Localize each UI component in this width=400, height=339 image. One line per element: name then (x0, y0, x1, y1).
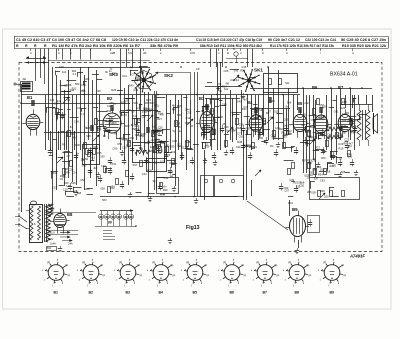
capacitor C41 (98, 178, 102, 180)
resistor R33 (342, 191, 345, 197)
svg-text:k: k (271, 282, 273, 285)
wire (55, 67, 150, 69)
svg-text:C55: C55 (106, 128, 111, 132)
svg-text:S21: S21 (285, 82, 290, 85)
svg-text:C21: C21 (344, 125, 349, 129)
tube base diagram B9 (324, 265, 340, 281)
tube base diagram B1 (48, 265, 64, 281)
svg-text:C21: C21 (236, 145, 241, 149)
svg-text:a: a (57, 259, 59, 262)
ground (205, 158, 207, 161)
svg-text:S15: S15 (133, 101, 138, 105)
svg-text:C44: C44 (204, 105, 209, 109)
resistor R32 (330, 191, 333, 197)
svg-text:1n: 1n (76, 151, 79, 155)
capacitor C37 (258, 132, 262, 134)
wire (97, 126, 106, 128)
svg-text:120: 120 (332, 164, 337, 168)
capacitor C20 (294, 150, 298, 152)
svg-text:f: f (157, 284, 158, 287)
svg-text:R9: R9 (207, 113, 211, 117)
svg-text:B10: B10 (47, 248, 52, 250)
resistor R2 (68, 131, 71, 137)
capacitor C6 (130, 148, 134, 150)
svg-text:C16: C16 (283, 118, 288, 122)
svg-text:f: f (87, 284, 88, 287)
svg-text:S28: S28 (311, 190, 316, 194)
svg-text:25: 25 (103, 134, 106, 138)
aerial connection arrows (26, 58, 46, 60)
svg-text:SK1: SK1 (254, 68, 263, 73)
svg-text:C18: C18 (157, 151, 162, 155)
svg-text:6k8: 6k8 (300, 180, 305, 184)
ground (122, 150, 124, 153)
svg-text:f: f (320, 279, 321, 282)
capacitor C34 (350, 162, 354, 164)
trimmer arrow 2 (93, 135, 99, 141)
svg-text:3n9: 3n9 (234, 69, 239, 73)
electrolytic capacitor C85 (131, 211, 133, 216)
svg-text:f: f (228, 284, 229, 287)
svg-text:R25: R25 (270, 99, 275, 103)
svg-text:C63: C63 (222, 103, 227, 107)
svg-text:BX634 A-01: BX634 A-01 (330, 72, 358, 78)
tube base diagram B2 (83, 265, 99, 281)
svg-text:R30: R30 (75, 143, 80, 147)
svg-text:s: s (251, 269, 253, 272)
wire (56, 49, 58, 60)
svg-text:C52: C52 (117, 142, 122, 146)
wire (250, 108, 290, 110)
svg-text:C67: C67 (284, 189, 289, 193)
svg-text:2n2: 2n2 (283, 123, 288, 127)
svg-text:120: 120 (141, 115, 146, 119)
svg-text:C60: C60 (113, 147, 118, 151)
svg-text:B5: B5 (193, 290, 198, 294)
coil L8 (212, 129, 216, 131)
svg-text:R: R (34, 44, 37, 48)
tube B2 (103, 113, 121, 133)
svg-text:S36: S36 (71, 181, 76, 185)
wire (100, 196, 238, 198)
svg-text:B8: B8 (67, 212, 73, 217)
svg-text:R14 27k R15 120k R16 39k R17 4: R14 27k R15 120k R16 39k R17 4k7 R18 15k (270, 44, 335, 48)
ground (170, 238, 172, 241)
svg-text:100: 100 (124, 99, 129, 103)
svg-text:22k: 22k (85, 77, 90, 81)
resistor R41 (104, 167, 107, 173)
svg-text:l: l (320, 51, 321, 55)
svg-text:B1: B1 (54, 290, 59, 294)
svg-text:B3: B3 (199, 96, 205, 101)
resistor R18 (283, 143, 286, 149)
svg-text:f: f (183, 279, 184, 282)
svg-text:S28: S28 (341, 170, 346, 174)
svg-text:4: 4 (352, 51, 354, 55)
ground (215, 160, 217, 163)
svg-text:A2B: A2B (110, 51, 115, 55)
svg-text:25: 25 (303, 112, 306, 116)
svg-text:4: 4 (30, 51, 32, 55)
svg-text:C28: C28 (67, 83, 72, 87)
svg-text:s: s (114, 269, 116, 272)
svg-text:33k R8 470k R9: 33k R8 470k R9 (150, 44, 178, 48)
capacitor C38 (320, 132, 324, 134)
svg-text:100: 100 (74, 190, 79, 194)
svg-text:g1: g1 (243, 274, 246, 277)
svg-text:B5: B5 (297, 101, 303, 106)
svg-text:R19: R19 (135, 124, 140, 128)
tube base diagram B8 (289, 265, 305, 281)
resistor R10 (186, 141, 189, 147)
svg-text:330: 330 (308, 161, 313, 165)
svg-text:B7: B7 (338, 85, 344, 90)
svg-text:R8: R8 (160, 113, 164, 117)
svg-text:R12: R12 (107, 109, 112, 113)
trimmer box A (201, 176, 214, 197)
svg-text:C41: C41 (334, 109, 339, 113)
svg-text:68: 68 (114, 132, 117, 136)
capacitor C28 (241, 145, 245, 147)
wire (103, 230, 112, 232)
tube B7 (338, 114, 352, 131)
svg-text:330: 330 (100, 155, 105, 159)
resistor R7 (152, 131, 155, 137)
coil L6 (319, 107, 323, 109)
svg-text:C63: C63 (347, 155, 352, 159)
svg-text:C14: C14 (133, 88, 138, 92)
svg-text:Fig13: Fig13 (186, 225, 200, 231)
tube B6 (314, 115, 328, 133)
svg-text:f: f (285, 279, 286, 282)
svg-text:a: a (333, 259, 335, 262)
svg-text:C33: C33 (81, 83, 86, 87)
filter box 2 (157, 178, 179, 194)
resistor R28 (172, 159, 175, 165)
svg-text:B4: B4 (159, 290, 164, 294)
svg-text:R1 1M R2 47k R3 2k2 R4 10k R5: R1 1M R2 47k R3 2k2 R4 10k R5 220k R6 1k… (52, 44, 140, 48)
svg-text:R4: R4 (130, 65, 134, 69)
tube B4 (249, 115, 263, 131)
svg-text:B2: B2 (107, 96, 113, 101)
svg-text:f: f (261, 284, 262, 287)
svg-text:B1: B1 (27, 95, 33, 100)
svg-text:R19: R19 (205, 145, 210, 149)
svg-text:80: 80 (108, 221, 112, 225)
svg-text:C: C (58, 51, 60, 55)
svg-text:C1 45 C2 810 C3 4T C4 100 C5 4: C1 45 C2 810 C3 4T C4 100 C5 47 C6 2n2 C… (16, 38, 106, 42)
ground (278, 142, 280, 145)
svg-text:R14: R14 (348, 118, 353, 122)
svg-text:C81/U: C81/U (48, 232, 55, 235)
svg-text:C52: C52 (80, 178, 85, 182)
ground (318, 162, 320, 165)
electrolytic capacitor C80 (101, 211, 103, 216)
svg-text:90 C20 4n7 C21 12: 90 C20 4n7 C21 12 (268, 38, 300, 42)
svg-text:R23: R23 (243, 144, 248, 148)
ground (60, 246, 62, 249)
svg-text:f: f (124, 284, 125, 287)
svg-text:B9: B9 (292, 207, 298, 212)
resistor R20 (313, 109, 316, 115)
capacitor C15 (241, 128, 245, 130)
wire (35, 67, 37, 81)
svg-text:C55: C55 (312, 168, 317, 172)
resistor R44 (108, 187, 111, 193)
svg-text:k: k (134, 282, 136, 285)
capacitor C19 (284, 128, 288, 130)
svg-text:C9: C9 (301, 123, 305, 127)
svg-text:2x4A: 2x4A (50, 242, 56, 246)
svg-text:R4: R4 (270, 144, 274, 148)
svg-text:R19: R19 (240, 69, 245, 73)
trimmer arrow 9 (233, 75, 239, 81)
capacitor C14 (230, 150, 234, 152)
resistor R25 (342, 99, 345, 105)
capacitor C4 (88, 150, 92, 152)
coil L9 (268, 97, 272, 99)
wire (205, 98, 240, 100)
svg-text:22k: 22k (231, 129, 236, 133)
svg-text:o: o (218, 51, 220, 55)
svg-text:S15: S15 (274, 109, 279, 113)
svg-text:R25: R25 (177, 104, 182, 108)
svg-text:R38: R38 (237, 140, 242, 144)
svg-text:C60: C60 (239, 134, 244, 138)
svg-text:C14 25 C15 3n9 C16 220 C17 47p: C14 25 C15 3n9 C16 220 C17 47p C18 5p C1… (196, 38, 262, 42)
svg-text:g1: g1 (308, 274, 311, 277)
svg-text:560: 560 (75, 82, 80, 86)
svg-text:R4: R4 (111, 185, 115, 189)
svg-text:4: 4 (240, 51, 242, 55)
capacitor C11 (190, 160, 194, 162)
capacitor C2 (60, 115, 64, 117)
svg-text:D: D (227, 51, 229, 55)
svg-text:2n2: 2n2 (57, 99, 62, 103)
svg-text:4k7: 4k7 (93, 166, 98, 170)
svg-text:a: a (129, 259, 131, 262)
resistor R1 (56, 109, 59, 115)
svg-text:k: k (338, 282, 340, 285)
filter box (83, 145, 100, 165)
ground (150, 196, 152, 199)
capacitor C25 (353, 128, 357, 130)
svg-text:4: 4 (286, 51, 288, 55)
svg-text:C63: C63 (85, 187, 90, 191)
svg-text:6k8: 6k8 (288, 132, 293, 136)
tube base diagram B3 (120, 265, 136, 281)
svg-text:C36: C36 (126, 108, 131, 112)
svg-text:6,3V: 6,3V (48, 237, 54, 241)
svg-text:g1: g1 (172, 274, 175, 277)
svg-text:68k R10 1k5 R11 100k R12 560 R: 68k R10 1k5 R11 100k R12 560 R13 8k2 (200, 44, 262, 48)
svg-text:g1: g1 (102, 274, 105, 277)
svg-text:S12: S12 (181, 145, 186, 149)
capacitor C36 (202, 132, 206, 134)
resistor R30 (324, 169, 327, 175)
svg-text:C36: C36 (242, 65, 247, 69)
wire (120, 110, 158, 112)
schematic boundary frame (dashed) (19, 63, 382, 252)
svg-text:C28: C28 (68, 168, 73, 172)
loudspeaker (373, 113, 375, 134)
svg-text:2n2: 2n2 (304, 101, 309, 105)
svg-text:4k7: 4k7 (73, 136, 78, 140)
svg-text:100: 100 (258, 114, 263, 118)
svg-text:56 C25 40 C26 8 C27 25n: 56 C25 40 C26 8 C27 25n (341, 38, 387, 42)
ground (52, 205, 54, 208)
resistor (zigzag) R45 (327, 135, 343, 139)
svg-text:C7b: C7b (190, 51, 196, 55)
svg-text:S40: S40 (237, 99, 242, 103)
resistor R37 (88, 151, 91, 157)
fuse block (47, 247, 57, 251)
svg-text:3n9: 3n9 (171, 150, 176, 154)
resistor R8 (166, 147, 169, 153)
svg-text:D: D (233, 47, 235, 51)
resistor R29 (314, 169, 317, 175)
capacitor C29 (68, 186, 72, 188)
svg-text:C18: C18 (321, 114, 326, 118)
resistor R19 (308, 131, 311, 137)
svg-text:3n9: 3n9 (320, 105, 325, 109)
capacitor C23 (331, 155, 335, 157)
trimmer arrow 7 (309, 139, 315, 145)
wire (21, 103, 130, 105)
svg-text:120: 120 (275, 126, 280, 130)
resistor R3 (84, 143, 87, 149)
ground (130, 192, 132, 195)
svg-text:R21: R21 (72, 69, 77, 73)
svg-text:R27: R27 (315, 146, 320, 150)
svg-text:R: R (16, 44, 19, 48)
svg-text:R31: R31 (288, 201, 293, 205)
svg-text:S15: S15 (282, 135, 287, 139)
svg-text:f: f (52, 284, 53, 287)
svg-text:B8: B8 (295, 290, 300, 294)
svg-text:5,6: 5,6 (128, 51, 132, 55)
wire (340, 104, 372, 106)
svg-text:S12: S12 (269, 116, 274, 120)
resistor R13 (225, 141, 228, 147)
svg-text:R27: R27 (157, 117, 162, 121)
svg-text:3n9: 3n9 (156, 127, 161, 131)
resistor R43 (126, 171, 129, 177)
svg-text:R38: R38 (70, 132, 75, 136)
svg-text:C41: C41 (132, 114, 137, 118)
svg-text:f: f (79, 279, 80, 282)
tube base diagram B4 (153, 265, 169, 281)
capacitor C3 (74, 155, 78, 157)
svg-text:C52: C52 (187, 111, 192, 115)
resistor R21 (326, 141, 329, 147)
svg-text:a: a (266, 259, 268, 262)
svg-text:f: f (328, 284, 329, 287)
svg-text:S40: S40 (177, 113, 182, 117)
svg-text:a: a (92, 259, 94, 262)
svg-text:S40: S40 (129, 83, 134, 87)
svg-text:C52: C52 (316, 165, 321, 169)
dial lamp above SK1 (234, 52, 238, 56)
svg-text:R31: R31 (137, 118, 142, 122)
svg-text:1n: 1n (136, 106, 139, 110)
svg-text:R17: R17 (133, 163, 138, 167)
svg-text:B6: B6 (230, 290, 235, 294)
ground (166, 150, 168, 153)
resistor R23 (350, 119, 353, 125)
svg-text:12: 12 (67, 98, 70, 102)
svg-text:R31: R31 (242, 107, 247, 111)
wire (205, 86, 242, 88)
svg-text:C60: C60 (321, 156, 326, 160)
svg-text:f: f (116, 279, 117, 282)
svg-text:R23: R23 (340, 106, 345, 110)
svg-text:6k8: 6k8 (326, 169, 331, 173)
resistor R5 (128, 141, 131, 147)
svg-text:C70: C70 (101, 164, 106, 168)
resistor R42 (116, 179, 119, 185)
svg-text:C25: C25 (344, 137, 349, 141)
resistor R9 (175, 121, 178, 127)
svg-text:C16: C16 (122, 146, 127, 150)
svg-text:C28: C28 (218, 115, 223, 119)
wafer switch SK1 (251, 81, 260, 84)
wire (155, 72, 190, 74)
svg-text:2M: 2M (307, 190, 311, 194)
ground (196, 198, 198, 201)
svg-text:C21: C21 (140, 70, 145, 74)
svg-text:S12: S12 (50, 98, 55, 102)
shield partition (154, 91, 156, 190)
capacitor C39 (279, 186, 283, 188)
coil box (133, 143, 165, 163)
ground (356, 170, 358, 173)
capacitor C21 (303, 140, 307, 142)
svg-text:S28: S28 (100, 187, 105, 191)
svg-text:a: a (162, 259, 164, 262)
ground (174, 186, 176, 189)
svg-text:5p: 5p (219, 89, 222, 93)
trimmer arrow 5 (227, 127, 233, 133)
svg-text:R17: R17 (135, 76, 140, 80)
wire junction dots (55, 94, 57, 96)
svg-text:f: f (44, 279, 45, 282)
resistor R11 (203, 143, 206, 149)
resistor R4 (95, 119, 98, 125)
svg-text:22k: 22k (310, 125, 315, 129)
coil L7 (146, 127, 150, 129)
resistor R34 (63, 169, 66, 175)
coil box contents (135, 150, 150, 154)
resistor R40 (348, 151, 351, 157)
svg-text:C70: C70 (59, 65, 64, 69)
svg-text:C18: C18 (172, 139, 177, 143)
svg-text:C: C (262, 51, 264, 55)
wire (21, 84, 23, 212)
ground (340, 172, 342, 175)
svg-text:A7493F: A7493F (349, 254, 365, 259)
capacitor C9 (168, 170, 172, 172)
capacitor C8 (156, 148, 160, 150)
svg-text:C25: C25 (252, 111, 257, 115)
capacitor C26 (158, 186, 162, 188)
svg-text:2n2: 2n2 (62, 70, 67, 74)
wire (226, 58, 248, 60)
resistor R6 (135, 119, 138, 125)
trimmer arrow 11 (319, 193, 325, 199)
electrolytic capacitor C83 (119, 211, 121, 216)
svg-text:C25: C25 (224, 69, 229, 73)
